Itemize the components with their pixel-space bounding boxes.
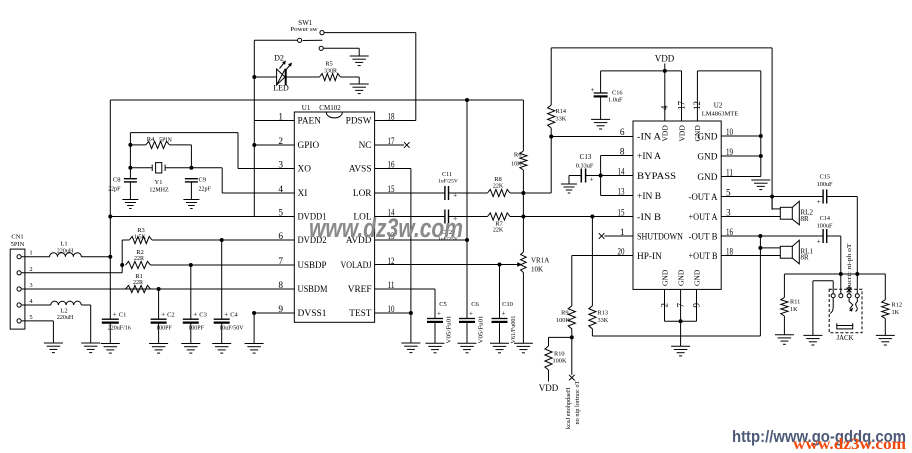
svg-text:8R: 8R — [801, 215, 810, 223]
svg-text:33K: 33K — [598, 317, 609, 324]
svg-text:22pF: 22pF — [108, 187, 121, 193]
svg-text:C14: C14 — [820, 215, 830, 222]
svg-text:VOLADJ: VOLADJ — [341, 261, 372, 271]
svg-text:4: 4 — [278, 185, 283, 195]
svg-text:22K: 22K — [493, 184, 504, 190]
svg-text:tiucric ni-ph oT: tiucric ni-ph oT — [847, 243, 853, 290]
svg-text:no nip lortnoc oT: no nip lortnoc oT — [574, 380, 581, 424]
svg-text:18: 18 — [388, 113, 395, 123]
svg-text:100PF: 100PF — [156, 325, 172, 331]
svg-text:+: + — [817, 236, 821, 245]
svg-text:VDD: VDD — [661, 125, 670, 142]
svg-text:10: 10 — [726, 128, 733, 138]
svg-text:12: 12 — [692, 101, 702, 110]
svg-text:R5: R5 — [325, 61, 333, 68]
svg-text:10K: 10K — [511, 162, 522, 168]
svg-text:+: + — [590, 176, 594, 184]
svg-text:5: 5 — [726, 189, 731, 199]
svg-text:GPIO: GPIO — [298, 141, 320, 151]
svg-text:C5: C5 — [439, 301, 447, 308]
svg-text:220uH: 220uH — [57, 315, 74, 321]
svg-text:2: 2 — [278, 137, 283, 147]
svg-text:20: 20 — [618, 248, 625, 258]
svg-text:Power sw: Power sw — [290, 27, 318, 33]
svg-text:R14: R14 — [556, 108, 567, 115]
svg-text:VDD: VDD — [677, 125, 686, 142]
svg-text:AVSS: AVSS — [349, 165, 372, 175]
svg-text:www.dz3w.com: www.dz3w.com — [309, 213, 463, 243]
svg-text:+IN A: +IN A — [637, 152, 661, 162]
svg-text:C13: C13 — [580, 153, 592, 161]
svg-text:C8: C8 — [113, 177, 121, 184]
svg-text:-IN B: -IN B — [637, 213, 661, 223]
svg-text:1.5K: 1.5K — [134, 235, 147, 241]
svg-text:8: 8 — [278, 281, 283, 291]
svg-text:5PIN: 5PIN — [159, 138, 172, 144]
svg-text:8R: 8R — [801, 254, 810, 262]
svg-text:CM102: CM102 — [319, 104, 341, 112]
svg-text:VDD: VDD — [539, 383, 559, 393]
svg-text:+: + — [502, 309, 506, 317]
svg-text:GND: GND — [692, 269, 701, 286]
svg-text:100uF: 100uF — [817, 222, 833, 229]
svg-text:10uF/50V: 10uF/50V — [219, 325, 244, 331]
svg-text:+OUT B: +OUT B — [689, 252, 718, 262]
svg-text:R10: R10 — [554, 351, 565, 358]
svg-text:C1: C1 — [119, 312, 127, 319]
svg-text:16: 16 — [388, 161, 395, 171]
svg-text:+: + — [591, 86, 595, 94]
svg-text:DVSS1: DVSS1 — [298, 309, 327, 319]
svg-text:V61/Fu001: V61/Fu001 — [511, 315, 517, 343]
svg-text:100uF: 100uF — [817, 181, 833, 188]
svg-text:V05/Fu01: V05/Fu01 — [479, 315, 485, 343]
svg-text:6: 6 — [278, 232, 283, 242]
svg-text:17: 17 — [676, 101, 686, 111]
svg-text:-OUT A: -OUT A — [689, 193, 718, 203]
svg-text:+: + — [113, 310, 117, 318]
svg-text:19: 19 — [726, 148, 733, 158]
svg-text:22pF: 22pF — [199, 187, 212, 193]
svg-text:www.dz3w.com: www.dz3w.com — [793, 436, 907, 453]
svg-text:R12: R12 — [892, 302, 903, 309]
svg-text:C6: C6 — [471, 301, 479, 308]
svg-text:100K: 100K — [553, 358, 567, 365]
svg-text:HP-IN: HP-IN — [637, 252, 662, 262]
svg-text:SHUTDOWN: SHUTDOWN — [637, 233, 683, 243]
svg-text:+: + — [193, 310, 197, 318]
svg-text:1: 1 — [29, 250, 32, 257]
svg-text:-OUT B: -OUT B — [689, 233, 718, 243]
svg-text:GND: GND — [660, 269, 669, 286]
svg-text:TEST: TEST — [349, 309, 372, 319]
svg-text:16: 16 — [726, 228, 733, 238]
svg-text:10: 10 — [388, 305, 395, 315]
svg-text:JACK: JACK — [837, 335, 854, 342]
svg-text:18: 18 — [726, 248, 733, 258]
svg-text:+: + — [437, 309, 441, 317]
svg-text:C11: C11 — [442, 171, 452, 178]
svg-text:3: 3 — [29, 282, 32, 289]
svg-text:15: 15 — [388, 185, 395, 195]
svg-text:22K: 22K — [493, 228, 504, 234]
svg-text:C2: C2 — [167, 312, 175, 319]
svg-text:+IN B: +IN B — [637, 192, 661, 202]
svg-text:1.0uF: 1.0uF — [608, 97, 623, 104]
svg-text:100K: 100K — [556, 317, 570, 324]
svg-text:D2: D2 — [274, 54, 284, 63]
svg-text:15: 15 — [618, 209, 625, 219]
svg-text:14: 14 — [618, 168, 625, 178]
svg-text:VR1A: VR1A — [531, 257, 549, 265]
svg-text:Y1: Y1 — [155, 179, 163, 186]
svg-text:R13: R13 — [598, 310, 609, 317]
svg-text:5: 5 — [29, 314, 32, 321]
svg-text:R9: R9 — [561, 310, 568, 317]
svg-text:USBDP: USBDP — [298, 261, 327, 271]
svg-text:220uF/16: 220uF/16 — [108, 325, 131, 331]
svg-text:220uH: 220uH — [57, 249, 74, 255]
svg-text:R2: R2 — [136, 249, 144, 256]
svg-text:PDSW: PDSW — [346, 117, 372, 127]
svg-text:7: 7 — [278, 257, 283, 267]
svg-text:12: 12 — [388, 257, 395, 267]
svg-text:kcaJ enohpdaeH: kcaJ enohpdaeH — [565, 387, 572, 429]
svg-text:33K: 33K — [556, 116, 567, 123]
svg-text:GND: GND — [697, 173, 717, 183]
svg-text:+: + — [817, 197, 821, 206]
svg-text:GND: GND — [676, 269, 685, 286]
svg-text:CN1: CN1 — [11, 234, 23, 241]
svg-text:NC: NC — [359, 141, 372, 151]
svg-text:GND: GND — [693, 125, 702, 142]
svg-text:LOR: LOR — [353, 189, 372, 199]
svg-text:BYPASS: BYPASS — [637, 172, 676, 182]
svg-text:1: 1 — [278, 113, 283, 123]
svg-text:L1: L1 — [60, 241, 67, 248]
svg-text:R4: R4 — [147, 136, 155, 143]
svg-text:11: 11 — [388, 281, 395, 291]
svg-text:1uF/25V: 1uF/25V — [438, 179, 458, 185]
svg-text:7: 7 — [675, 303, 685, 308]
svg-text:1K: 1K — [892, 309, 900, 316]
svg-text:+: + — [469, 309, 473, 317]
svg-text:V05/Fu01: V05/Fu01 — [447, 315, 453, 343]
svg-text:XI: XI — [298, 189, 308, 199]
svg-text:+OUT A: +OUT A — [689, 213, 718, 223]
svg-text:5PIN: 5PIN — [11, 241, 25, 248]
svg-text:C9: C9 — [199, 177, 207, 184]
svg-text:4: 4 — [660, 105, 670, 110]
svg-text:9: 9 — [278, 305, 283, 315]
svg-text:+: + — [453, 191, 457, 200]
svg-text:LM4863MTE: LM4863MTE — [702, 111, 739, 118]
svg-text:R11: R11 — [790, 299, 800, 306]
svg-text:R3: R3 — [137, 227, 145, 234]
svg-text:1: 1 — [620, 228, 625, 238]
svg-text:22R: 22R — [133, 280, 143, 286]
svg-text:C3: C3 — [199, 312, 207, 319]
svg-text:8: 8 — [620, 148, 625, 158]
svg-text:U2: U2 — [714, 102, 723, 110]
svg-text:+: + — [161, 310, 165, 318]
svg-text:0.33uF: 0.33uF — [576, 163, 594, 170]
svg-text:330R: 330R — [324, 69, 337, 75]
svg-text:R6: R6 — [514, 152, 522, 159]
svg-text:U1: U1 — [302, 104, 311, 112]
svg-text:GND: GND — [697, 153, 717, 163]
svg-text:2: 2 — [29, 266, 32, 273]
svg-text:R8: R8 — [494, 176, 502, 183]
svg-text:R7: R7 — [495, 221, 503, 228]
svg-text:PAEN: PAEN — [298, 117, 322, 127]
svg-text:XO: XO — [298, 165, 312, 175]
svg-text:22R: 22R — [134, 256, 144, 262]
svg-text:C15: C15 — [820, 173, 830, 180]
svg-text:1K: 1K — [790, 306, 798, 313]
svg-text:LED: LED — [273, 84, 289, 93]
svg-text:3: 3 — [726, 209, 731, 219]
svg-text:VDD: VDD — [655, 54, 675, 64]
svg-text:+: + — [224, 310, 228, 318]
svg-text:5: 5 — [278, 209, 283, 219]
svg-text:C16: C16 — [612, 90, 623, 97]
svg-text:VREF: VREF — [348, 285, 372, 295]
svg-text:100PF: 100PF — [188, 325, 204, 331]
svg-text:10K: 10K — [531, 266, 543, 274]
svg-text:3: 3 — [278, 161, 283, 171]
svg-text:17: 17 — [388, 137, 395, 147]
svg-text:12MHZ: 12MHZ — [149, 188, 169, 194]
svg-text:R1: R1 — [135, 273, 143, 280]
svg-text:C10: C10 — [502, 301, 513, 308]
svg-text:-IN A: -IN A — [637, 133, 661, 143]
svg-text:9: 9 — [691, 303, 701, 308]
svg-text:SW1: SW1 — [298, 19, 313, 27]
svg-text:2: 2 — [659, 303, 669, 308]
svg-text:13: 13 — [618, 188, 625, 198]
svg-text:L2: L2 — [60, 308, 67, 315]
svg-text:USBDM: USBDM — [298, 285, 328, 295]
svg-text:11: 11 — [726, 169, 733, 179]
svg-text:C4: C4 — [230, 312, 238, 319]
